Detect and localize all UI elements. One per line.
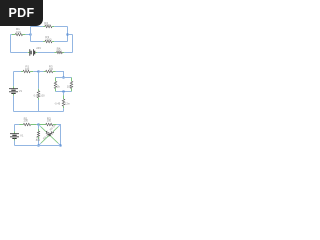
- wire: bottom left segment (circuit 1): [11, 52, 28, 54]
- svg-text:V1: V1: [20, 134, 24, 138]
- node: bridge bottom-right (circuit 3): [60, 145, 62, 147]
- wire: box top (circuit 2): [56, 77, 72, 79]
- wire: stem to bottom wire (circuit 2): [63, 108, 65, 111]
- wire: left rail bottom (circuit 2): [13, 96, 15, 112]
- node: box bottom junction (circuit 2): [63, 91, 65, 93]
- wire: split vertical (circuit 1): [30, 27, 32, 42]
- wire: bottom wire (circuit 2): [14, 111, 64, 113]
- svg-text:24V: 24V: [36, 46, 41, 50]
- svg-text:10k: 10k: [67, 84, 72, 88]
- wire: left rail top (circuit 2): [13, 72, 15, 87]
- resistor R1 (circuit 1): [12, 27, 26, 36]
- resistor R3 (circuit 1, bottom branch): [43, 35, 54, 43]
- wire: bottom branch right segment (circuit 1): [54, 41, 67, 43]
- wire: top-right corner and right rail (circuit 3): [57, 125, 61, 146]
- svg-text:100Ω: 100Ω: [44, 23, 50, 27]
- wire: R1 to node (circuit 2): [33, 71, 38, 73]
- wire: left rail top (circuit 3): [14, 125, 16, 132]
- svg-text:10Ω: 10Ω: [16, 30, 21, 34]
- resistor R2 (circuit 3, bridge left vertical): [36, 125, 41, 146]
- wire: right rail (circuit 1): [72, 35, 74, 53]
- battery V1 (circuit 2): [9, 86, 23, 96]
- wire: top branch right segment (circuit 1): [54, 26, 67, 28]
- wire: top branch left segment (circuit 1): [31, 26, 44, 28]
- svg-text:2k: 2k: [57, 84, 61, 88]
- resistor R2 (circuit 1, top branch): [43, 21, 54, 28]
- wire: R1 to split node (circuit 1): [26, 34, 31, 36]
- svg-text:100: 100: [25, 67, 30, 71]
- node: top junction (circuit 2): [38, 71, 40, 73]
- resistor R1 (circuit 2, top): [21, 65, 33, 73]
- node: parallel split (circuit 1): [30, 34, 32, 36]
- resistor R4 (circuit 1, bottom wire): [55, 46, 65, 53]
- resistor R1 (circuit 3, top): [19, 116, 36, 125]
- resistor R5 (circuit 2, box right vertical): [67, 78, 73, 92]
- wire: top wire left segment (circuit 2): [14, 71, 22, 73]
- resistor R4 (circuit 3, bridge diagonal TL-BR): [39, 125, 61, 146]
- wire: join vertical (circuit 1): [67, 27, 69, 42]
- wire: left rail bottom (circuit 3): [14, 141, 16, 146]
- svg-text:100: 100: [47, 119, 52, 123]
- svg-text:12m: 12m: [65, 102, 70, 106]
- svg-text:100Ω: 100Ω: [45, 37, 51, 41]
- resistor R4 (circuit 2, box left vertical): [54, 78, 60, 92]
- node: parallel join (circuit 1): [67, 34, 69, 36]
- wire: left rail (circuit 1): [10, 35, 12, 53]
- svg-text:200: 200: [24, 119, 29, 123]
- svg-text:0.05: 0.05: [34, 93, 40, 97]
- node: bridge bottom-left (circuit 3): [38, 145, 40, 147]
- svg-text:100: 100: [49, 67, 54, 71]
- svg-text:V1: V1: [19, 89, 23, 93]
- node: box top junction (circuit 2): [63, 77, 65, 79]
- wire: top wire right segment to box entry (circuit 2): [56, 72, 64, 78]
- node: bridge top-left (circuit 3): [38, 124, 40, 126]
- battery V1 (circuit 3): [10, 131, 24, 140]
- wire: top-left stub into R1 (circuit 1): [11, 34, 13, 36]
- svg-text:-0.45: -0.45: [54, 102, 60, 106]
- wire: mid branch upper (circuit 2): [38, 72, 40, 89]
- wire: join stub to right rail (circuit 1): [68, 34, 73, 36]
- wire: mid branch lower (circuit 2): [38, 100, 40, 112]
- svg-text:100: 100: [40, 93, 45, 97]
- svg-text:50Ω: 50Ω: [57, 49, 62, 53]
- wire: bottom wire (circuit 3): [15, 145, 61, 147]
- resistor R3 (circuit 3, top): [39, 116, 57, 125]
- resistor R2 (circuit 2, middle vertical): [34, 89, 46, 100]
- wire: node to R3 (circuit 2): [39, 71, 44, 73]
- svg-text:800: 800: [36, 138, 41, 142]
- wire: box bottom (circuit 2): [56, 91, 72, 93]
- wire: bottom middle segment (circuit 1): [37, 52, 54, 54]
- wire: R1 to node (circuit 3): [37, 124, 39, 126]
- PDF badge: [0, 0, 43, 26]
- wire: top wire left segment (circuit 3): [15, 124, 20, 126]
- battery V1 24V (circuit 1): [28, 46, 42, 56]
- resistor R3 (circuit 2, top): [44, 65, 56, 73]
- wire: bottom right segment (circuit 1): [64, 52, 72, 54]
- wire: bottom branch left segment (circuit 1): [31, 41, 44, 43]
- resistor R5 (circuit 3, bridge diagonal TR-BL): [39, 123, 61, 145]
- resistor R6 (circuit 2, bottom stem): [54, 92, 70, 109]
